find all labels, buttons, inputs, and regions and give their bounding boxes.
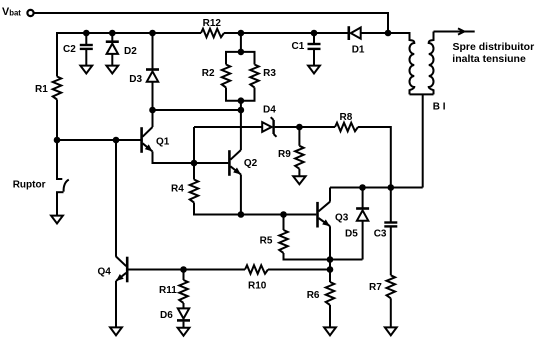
wire rail after D1 [361, 32, 409, 34]
label C2 [63, 44, 76, 55]
wire R11 to D6 [183, 303, 185, 309]
wire collector rail [330, 187, 423, 189]
diode D3 [146, 70, 159, 82]
svg-text:D5: D5 [345, 229, 358, 240]
wire main rail right of R12 [224, 32, 348, 34]
wire D3 bottom lead [152, 82, 154, 110]
svg-text:B I: B I [433, 102, 446, 113]
wire R9 bottom lead [298, 169, 300, 177]
svg-text:Spre distribuitor: Spre distribuitor [453, 41, 535, 53]
wire node yB [153, 109, 241, 111]
label Q1 [156, 137, 170, 148]
diode D6 [177, 308, 190, 320]
wire C2 top lead [85, 33, 87, 44]
ground R6 [324, 327, 336, 335]
wire yC left [194, 126, 262, 128]
ground R7 [385, 327, 397, 335]
svg-text:R7: R7 [369, 282, 382, 293]
wire R6 bottom lead [329, 305, 331, 328]
label R4 [171, 183, 184, 194]
wire D6 bottom lead [183, 322, 185, 328]
svg-text:D2: D2 [124, 46, 137, 57]
wire C1 top lead [313, 33, 315, 43]
label R11 [159, 285, 177, 296]
node dot R9 top [296, 124, 303, 131]
ground D2 [106, 66, 118, 74]
node dot yB right [238, 107, 245, 114]
svg-text:R11: R11 [159, 285, 177, 296]
label D1 [352, 44, 365, 55]
svg-text:D3: D3 [129, 74, 142, 85]
capacitor C3 [384, 223, 397, 227]
svg-text:R2: R2 [202, 68, 215, 79]
node dot C2 top [83, 30, 90, 37]
wire C2 bottom lead [85, 50, 87, 66]
node dot R2R3 split [238, 49, 245, 56]
label Ruptor [13, 180, 46, 191]
svg-text:Q2: Q2 [244, 158, 258, 169]
label C3 [374, 229, 387, 240]
wire R4 bottom corner [194, 203, 316, 215]
wire B1 bottom bar [410, 93, 434, 95]
resistor R3 [250, 65, 259, 88]
transformer B1 primary winding [409, 32, 414, 94]
wire C3 to R7 [390, 228, 392, 276]
node dot R11 top [180, 266, 187, 273]
wire D2 bottom lead [111, 54, 113, 66]
resistor R7 [387, 275, 396, 298]
wire node A vertical [193, 127, 195, 180]
node dot Q1 collector [149, 107, 156, 114]
svg-text:R1: R1 [35, 84, 48, 95]
label R3 [263, 68, 276, 79]
svg-text:Ruptor: Ruptor [13, 180, 46, 191]
ground C1 [308, 66, 320, 74]
diode D5 [356, 209, 369, 221]
wire R2R3 bottom bar [226, 88, 255, 101]
switch Ruptor [56, 179, 69, 192]
node dot D2 top [109, 30, 116, 37]
resistor R6 [326, 282, 335, 305]
node dot C1 top [311, 30, 318, 37]
node dot C3 top [388, 184, 395, 191]
node dot R1 Ruptor junction [54, 137, 61, 144]
wire Q1 base rail [57, 139, 141, 141]
wire D5 top lead [362, 188, 364, 208]
node dot Q2 emitter node [238, 211, 245, 218]
wire Q3 collector lead [329, 188, 331, 202]
resistor R8 [335, 123, 358, 132]
node dot D5 top [359, 184, 366, 191]
node dot Q1 emitter node [191, 160, 198, 167]
wire Q4 base rail [128, 269, 245, 271]
node dot Q3 emitter node [327, 256, 334, 263]
node dot D3 top [149, 30, 156, 37]
wire Q2 collector lead [240, 110, 242, 150]
label C1 [292, 41, 305, 52]
label R1 [35, 84, 48, 95]
wire D5 bottom lead [362, 221, 364, 260]
Vbat terminal [27, 10, 33, 16]
wire Q4 emitter lead [115, 281, 117, 328]
label R5 [260, 236, 273, 247]
resistor R12 [201, 29, 224, 38]
ground C2 [80, 66, 92, 74]
label D4 [263, 104, 276, 115]
label Q4 [98, 267, 112, 278]
resistor R5 [279, 230, 288, 253]
wire R7 bottom lead [390, 298, 392, 327]
transistor Q1 [142, 127, 153, 153]
wire R2R3 to node [240, 101, 242, 110]
wire Ruptor bottom [56, 192, 58, 216]
svg-text:R6: R6 [307, 290, 320, 301]
wire Q3 emitter lead [329, 226, 331, 282]
resistor R10 [245, 265, 268, 274]
svg-text:Q4: Q4 [98, 267, 112, 278]
label inalta tensiune [452, 53, 526, 65]
node dot R2R3 top [238, 30, 245, 37]
label D5 [345, 229, 358, 240]
svg-text:inalta tensiune: inalta tensiune [452, 53, 526, 65]
svg-text:R3: R3 [263, 68, 276, 79]
wire R1 top lead [56, 32, 58, 77]
svg-text:D6: D6 [160, 310, 173, 321]
wire D4 to R8 [275, 126, 335, 128]
wire main rail left of R12 [57, 32, 201, 34]
svg-text:Vbat: Vbat [2, 6, 21, 18]
label Q2 [244, 158, 258, 169]
resistor R1 [53, 77, 62, 100]
label Q3 [335, 213, 349, 224]
label R7 [369, 282, 382, 293]
label D6 [160, 310, 173, 321]
label D2 [124, 46, 137, 57]
svg-text:R9: R9 [278, 149, 291, 160]
capacitor C1 [308, 44, 321, 49]
wire R2R3 drop [240, 33, 242, 52]
wire Ruptor top [56, 140, 58, 179]
node dot Vbat joins rail [385, 30, 392, 37]
svg-text:Q3: Q3 [335, 213, 349, 224]
wire Q1 collector lead [152, 110, 154, 127]
label B1 [433, 102, 446, 113]
svg-text:R10: R10 [248, 281, 267, 292]
svg-text:D4: D4 [263, 104, 276, 115]
svg-text:R12: R12 [203, 18, 222, 29]
wire R11 top lead [183, 270, 185, 281]
wire secondary output [434, 31, 475, 33]
ground R9 [293, 176, 305, 184]
node dot R2R3 join [238, 97, 245, 104]
wire R9 top lead [298, 127, 300, 146]
wire R5 bottom corner [284, 253, 363, 260]
zener diode D4 [262, 117, 276, 137]
svg-text:R5: R5 [260, 236, 273, 247]
ground Q4 [110, 327, 122, 335]
diode D2 [106, 42, 119, 54]
svg-text:R4: R4 [171, 183, 184, 194]
transistor Q3 [318, 202, 331, 228]
transistor Q2 [229, 150, 241, 176]
label R10 [248, 281, 267, 292]
svg-text:C3: C3 [374, 229, 387, 240]
resistor R4 [190, 180, 199, 203]
label D3 [129, 74, 142, 85]
wire R1 bottom lead [56, 100, 58, 141]
wire R5 top lead [283, 215, 285, 231]
wire C3 top lead [390, 188, 392, 222]
label R2 [202, 68, 215, 79]
wire B1 center tap down [422, 94, 424, 187]
label Vbat [2, 6, 21, 18]
wire R10 to node [268, 269, 330, 271]
node dot R5 top [280, 211, 287, 218]
transistor Q4 [116, 257, 127, 283]
node dot R6 top [327, 266, 334, 273]
wire Vbat top rail [35, 13, 389, 33]
wire Q1 emitter lead [153, 152, 229, 164]
transformer B1 secondary winding [429, 32, 434, 95]
label R6 [307, 290, 320, 301]
resistor R11 [179, 280, 188, 303]
svg-text:R8: R8 [340, 112, 353, 123]
resistor R2 [222, 65, 231, 88]
label R8 [340, 112, 353, 123]
svg-text:C2: C2 [63, 44, 76, 55]
label R9 [278, 149, 291, 160]
arrow output direction [458, 28, 464, 34]
label Spre distribuitor [453, 41, 535, 53]
wire Q2 emitter lead [240, 175, 242, 215]
svg-text:D1: D1 [352, 44, 365, 55]
wire C1 bottom lead [313, 50, 315, 66]
node dot Q4 branch [113, 137, 120, 144]
wire R2R3 top bar [226, 52, 255, 65]
svg-text:Q1: Q1 [156, 137, 170, 148]
ground D6 [178, 328, 190, 336]
label R12 [203, 18, 222, 29]
wire D2 top lead [111, 33, 113, 41]
capacitor C2 [80, 45, 93, 49]
svg-text:C1: C1 [292, 41, 305, 52]
diode D1 [349, 26, 361, 40]
ground Ruptor [51, 216, 63, 224]
wire R8 right corner [358, 127, 391, 188]
wire Q4 collector vertical [115, 140, 117, 257]
wire D3 top lead [152, 33, 154, 69]
resistor R9 [295, 146, 304, 169]
